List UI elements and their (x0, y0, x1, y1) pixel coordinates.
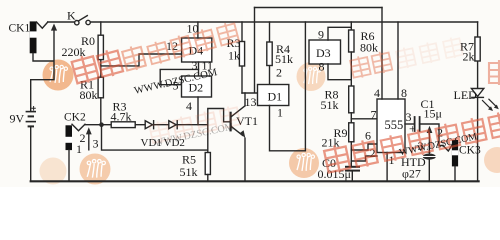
wire R0/R1 junction to D4 pin12 (101, 54, 182, 66)
wire CK2 tip to node (85, 124, 99, 126)
wire CK1 sleeve staircase (31, 27, 54, 80)
svg-text:1k: 1k (228, 49, 240, 63)
svg-text:80k: 80k (360, 41, 378, 55)
wire D3 pin9 to R6 top (328, 22, 351, 40)
resistor R7 2k (475, 22, 480, 89)
svg-text:D1: D1 (268, 90, 283, 104)
resistor R5 51k (205, 125, 210, 182)
wire CK2 sleeve to ground (68, 150, 70, 181)
connector CK1 (30, 21, 48, 53)
capacitor C1 15u (415, 117, 443, 146)
svg-text:1: 1 (277, 106, 283, 120)
gate D1 (258, 85, 289, 106)
wire 555 pin3 out (405, 123, 414, 125)
wire D1 pin1 to VCC via right vertical (270, 22, 306, 151)
svg-text:3: 3 (192, 59, 198, 73)
svg-text:WWW.DZSC.COM: WWW.DZSC.COM (153, 121, 234, 149)
resistor R1 80k (98, 77, 103, 122)
watermark disc mid-left (297, 62, 326, 91)
diode VD1 (145, 121, 169, 129)
resistor R9 21k (349, 123, 354, 167)
gate D3 (309, 40, 341, 64)
wire D4 out pins 3,11 to D2 (198, 62, 200, 76)
resistor R3 4.7k (104, 122, 145, 128)
svg-text:51k: 51k (321, 98, 339, 112)
svg-text:K: K (67, 9, 76, 23)
svg-text:2: 2 (276, 66, 282, 80)
svg-text:9V: 9V (10, 112, 25, 126)
gate D4 (182, 38, 212, 62)
svg-text:555: 555 (385, 118, 404, 132)
LED (471, 89, 498, 182)
diode VD2 (169, 121, 208, 129)
gate D2 (182, 76, 212, 97)
piezo HTD (423, 154, 436, 182)
svg-text:8: 8 (319, 60, 325, 74)
wire D4 pin10 to rail (197, 22, 199, 38)
switch K (75, 16, 91, 25)
connector CK3 (443, 140, 458, 181)
watermark www.dzsc.com gray (133, 67, 478, 158)
wire 555 pin2 step (351, 156, 377, 161)
svg-text:4: 4 (374, 86, 380, 100)
svg-text:2k: 2k (463, 50, 475, 64)
svg-text:D3: D3 (316, 46, 331, 60)
CK2 plug arrow (88, 134, 90, 149)
svg-text:8: 8 (401, 86, 407, 100)
resistor R3 1k (239, 22, 244, 93)
wire D3 pin8 to R6/R8 junction (328, 64, 351, 80)
connector CK2 (66, 124, 86, 150)
node dot CK2/R1/R3 junction (99, 122, 104, 127)
wire 555 pin8 to VCC (397, 22, 399, 99)
svg-text:6: 6 (365, 129, 371, 143)
svg-text:3: 3 (93, 137, 99, 151)
wire 555 pin4 to reset rail (381, 8, 383, 100)
watermark disc bottom-center (289, 148, 319, 178)
svg-text:51k: 51k (180, 165, 198, 179)
svg-text:4: 4 (186, 99, 192, 113)
battery 9V (26, 107, 35, 127)
svg-text:4.7k: 4.7k (111, 110, 132, 124)
wire node down to R5 line (102, 126, 208, 150)
wire VT1 collector / D1 pin13 / reset rail (242, 8, 258, 94)
resistor R4 51k (267, 22, 272, 85)
watermark disc bottom-right edge (484, 147, 500, 173)
svg-text:CK1: CK1 (9, 23, 31, 35)
watermark disc bottom-left (40, 154, 111, 185)
svg-text:1: 1 (76, 142, 82, 156)
wire 555 pin6 step (351, 144, 377, 150)
svg-text:CK2: CK2 (64, 112, 86, 124)
svg-text:9: 9 (318, 28, 324, 42)
svg-text:φ27: φ27 (402, 167, 421, 181)
svg-text:15μ: 15μ (424, 107, 442, 121)
bottom ground rail (31, 180, 479, 182)
svg-text:13: 13 (245, 95, 257, 109)
svg-text:LED: LED (454, 88, 478, 102)
watermark disc top-left (43, 60, 74, 91)
wire staircase to VT1 base (208, 109, 230, 125)
wire D2 pin4 down (197, 97, 199, 125)
CK3 plug arrow (428, 133, 430, 154)
wire 555 pin7 (351, 118, 377, 120)
svg-text:7: 7 (371, 108, 377, 122)
top reset rail y7.5 (255, 7, 383, 9)
top VCC rail y22 (48, 21, 478, 23)
wire loop to D2 pin5 (160, 69, 198, 84)
wire 555 pin1 to ground (386, 153, 388, 182)
svg-text:51k: 51k (275, 52, 293, 66)
svg-text:80k: 80k (80, 88, 98, 102)
capacitor C0 0.015u (346, 167, 359, 182)
left battery column wire (30, 80, 32, 182)
transistor VT1 (231, 93, 246, 181)
resistor R0 220k (98, 22, 103, 77)
resistor R8 51k (349, 86, 354, 123)
CK1 plug arrow (51, 24, 57, 31)
resistor R6 80k (349, 30, 354, 86)
IC 555 (377, 99, 405, 153)
svg-text:CK3: CK3 (459, 145, 481, 157)
